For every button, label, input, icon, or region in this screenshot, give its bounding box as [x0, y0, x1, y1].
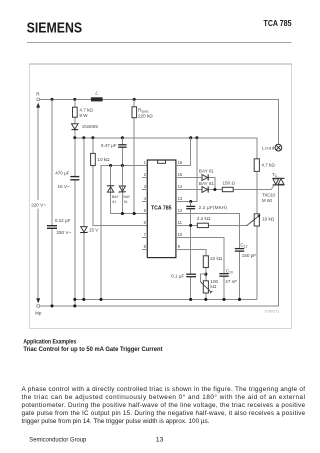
- header rule: [27, 42, 292, 44]
- svg-text:gate pulse from the IC output: gate pulse from the IC output pin 15. Du…: [22, 410, 306, 417]
- wire Rsync column: [133, 99, 135, 213]
- junction dot pin14/pin15 outputs: [213, 188, 216, 191]
- junction dot Vs rail / zener column: [82, 136, 85, 139]
- junction dot gnd/zener: [82, 298, 85, 301]
- wire pin11 control line: [176, 224, 247, 226]
- wire pin1 ground line: [101, 166, 147, 300]
- svg-text:BAY: BAY: [123, 195, 130, 199]
- wire pin14 output: [176, 189, 271, 191]
- svg-text:150 Ω: 150 Ω: [223, 180, 236, 185]
- svg-text:250 V~: 250 V~: [56, 230, 71, 235]
- svg-text:10: 10: [178, 232, 183, 237]
- pin 7 number and stub: [142, 232, 148, 238]
- junction dot pin1 line / 0.47uF column: [121, 164, 124, 167]
- svg-text:Application Examples: Application Examples: [23, 338, 76, 345]
- wire pin10 to C10: [176, 238, 224, 300]
- svg-text:0.1 µF: 0.1 µF: [171, 273, 184, 278]
- junction dot top rail / 0.22uF column: [50, 98, 53, 101]
- svg-text:150 pF: 150 pF: [242, 253, 256, 258]
- junction dot pin13 stub / 2.2uF: [189, 200, 192, 203]
- pin 2 number and stub: [142, 172, 148, 178]
- lamp Load: [262, 144, 282, 151]
- svg-text:22 kΩ: 22 kΩ: [210, 256, 223, 261]
- wire 15V zener column: [83, 138, 85, 300]
- svg-text:C12: C12: [240, 242, 247, 248]
- svg-text:12: 12: [178, 208, 183, 213]
- wire 0.22uF column: [51, 99, 53, 306]
- svg-text:11: 11: [178, 220, 183, 225]
- wire pin13 to Vs rail: [176, 138, 197, 202]
- junction dot pin11 / 2.2uF column: [189, 224, 192, 227]
- svg-text:trigger pulse from pin 14. The: trigger pulse from pin 14. The trigger p…: [22, 418, 210, 425]
- svg-text:SIEMENS: SIEMENS: [27, 20, 83, 36]
- junction dot Mp/0.22uF: [50, 304, 53, 307]
- junction dot gnd/C10: [222, 298, 225, 301]
- svg-text:2: 2: [144, 172, 147, 177]
- svg-text:Semiconductor Group: Semiconductor Group: [29, 436, 87, 443]
- svg-text:BAY 61: BAY 61: [199, 181, 214, 186]
- svg-text:TC: TC: [272, 172, 278, 178]
- wire pin9 ramp resistor column: [176, 249, 206, 299]
- svg-text:220 V~: 220 V~: [31, 202, 46, 207]
- junction dot gnd/100k: [204, 298, 207, 301]
- wire trimmer wiper jog: [200, 274, 205, 282]
- potentiometer 10 kOhm: [246, 214, 274, 226]
- svg-text:13: 13: [156, 436, 164, 443]
- svg-text:9: 9: [178, 244, 181, 249]
- node Mp terminal: [35, 305, 42, 316]
- svg-text:13: 13: [178, 196, 183, 201]
- svg-text:kΩ: kΩ: [210, 284, 216, 289]
- svg-text:15: 15: [178, 172, 183, 177]
- svg-text:the triac can be adjusted cont: the triac can be adjusted continuously b…: [22, 393, 305, 401]
- svg-text:0.47 µF: 0.47 µF: [101, 143, 117, 148]
- wire pin12 to C12: [176, 214, 240, 300]
- wire 2.2uF column down to 0.1uF and ground rail: [190, 202, 192, 300]
- svg-text:1N4005: 1N4005: [82, 124, 99, 129]
- svg-text:9 W: 9 W: [79, 113, 88, 118]
- junction dot Vs rail / 10k column: [91, 136, 94, 139]
- capacitor C10 47 nF: [219, 269, 237, 284]
- wire 4.7k 9W column: [74, 99, 76, 137]
- svg-text:470 µF: 470 µF: [55, 171, 70, 176]
- resistor 4.7 kOhm (gate supply): [254, 159, 275, 172]
- svg-text:Mp: Mp: [35, 310, 42, 315]
- svg-text:5: 5: [144, 208, 147, 213]
- svg-text:4.7 kΩ: 4.7 kΩ: [79, 108, 93, 113]
- resistor Rsync 220 kOhm: [132, 107, 153, 119]
- svg-text:3: 3: [144, 184, 147, 189]
- svg-text:BAY 61: BAY 61: [199, 169, 214, 174]
- diode BAY 61 (pin 15): [199, 169, 214, 181]
- diode BAY 61 (sync clamp left, cathode up): [107, 185, 119, 204]
- svg-text:2.2 µF(MKH): 2.2 µF(MKH): [199, 205, 228, 210]
- capacitor 0.1 uF: [171, 273, 196, 278]
- wire right BAY61 column: [121, 166, 123, 214]
- svg-text:BAY: BAY: [112, 195, 119, 199]
- pin 4 number and stub: [142, 196, 148, 202]
- svg-text:8: 8: [144, 244, 147, 249]
- junction dot Vs rail / 470uF column: [73, 136, 76, 139]
- svg-text:EIS0171: EIS0171: [265, 310, 279, 314]
- svg-text:R: R: [36, 91, 40, 96]
- resistor 2.2 kOhm: [197, 216, 211, 227]
- figure frame (decorative): [29, 64, 291, 328]
- capacitor 2.2 uF (MKH): [186, 205, 227, 210]
- junction dot Vs rail / pin13 column: [195, 136, 198, 139]
- svg-text:2.2 kΩ: 2.2 kΩ: [197, 216, 211, 221]
- capacitor 0.47uF: [101, 143, 127, 148]
- wire Vs rail to 4.7k gate resistor corner: [75, 138, 257, 159]
- junction dot gnd/0.1uF: [189, 298, 192, 301]
- svg-text:4.7 kΩ: 4.7 kΩ: [261, 162, 275, 167]
- svg-text:61: 61: [112, 200, 116, 204]
- resistor 150 Ohm: [222, 180, 235, 191]
- wire 470uF column: [74, 138, 76, 306]
- diode BAY 61 (pin 14): [199, 181, 214, 193]
- svg-text:220 kΩ: 220 kΩ: [138, 114, 153, 119]
- junction dot gnd/C12: [238, 298, 241, 301]
- wire 10k pin6 pull-up column: [93, 138, 147, 226]
- svg-text:61: 61: [124, 200, 128, 204]
- capacitor 0.22uF 250V~: [47, 218, 71, 235]
- svg-text:L: L: [95, 91, 98, 96]
- pin 8 number and stub: [142, 244, 148, 250]
- svg-text:4: 4: [144, 196, 147, 201]
- capacitor C12 150 pF: [235, 242, 256, 258]
- svg-text:15 V: 15 V: [89, 227, 99, 232]
- junction dot Vs rail / 0.47uF column: [121, 136, 124, 139]
- junction dot gnd/470uF: [73, 298, 76, 301]
- wire 0.47uF column: [121, 138, 123, 166]
- voltage arrow 220 V~: [31, 103, 49, 304]
- svg-text:TCA 785: TCA 785: [151, 206, 172, 212]
- node R terminal: [36, 91, 40, 100]
- wire Mp rail: [40, 185, 279, 306]
- junction dot top rail / Rsync column: [133, 98, 136, 101]
- resistor 100 kOhm trimmer: [200, 279, 218, 293]
- svg-text:Rsync: Rsync: [138, 107, 149, 113]
- wire pin15 output: [176, 178, 215, 190]
- zener diode 15 V: [80, 227, 99, 234]
- svg-text:Load: Load: [262, 145, 275, 150]
- wire left BAY61 column: [110, 166, 112, 214]
- wire mains R rail (top): [40, 99, 279, 144]
- junction dot Mp/470uF column: [73, 304, 76, 307]
- capacitor 470uF 16V: [55, 171, 79, 189]
- resistor 22 kOhm: [203, 256, 222, 268]
- junction dot 22k/100k node: [204, 273, 207, 276]
- resistor 4.7 kOhm 9 W: [73, 107, 94, 118]
- diode BAY 61 (sync clamp right, cathode down): [119, 186, 131, 204]
- svg-text:47 nF: 47 nF: [225, 279, 237, 284]
- svg-text:TCA 785: TCA 785: [264, 18, 292, 28]
- op-amp U1 TCA 785 IC body: [147, 160, 176, 258]
- svg-text:Triac Control for up to 50 mA: Triac Control for up to 50 mA Gate Trigg…: [23, 346, 163, 353]
- svg-text:16: 16: [178, 160, 183, 165]
- svg-text:14: 14: [178, 184, 183, 189]
- junction dot gnd/pin1 column: [99, 298, 102, 301]
- wire pin5 sync line: [111, 213, 148, 215]
- svg-text:1: 1: [144, 160, 147, 165]
- ground rail: [75, 298, 257, 300]
- diode 1N4005: [72, 124, 99, 130]
- junction dot pin5 line / right BAY61: [121, 212, 124, 215]
- svg-text:7: 7: [144, 232, 147, 237]
- svg-text:0.22 µF: 0.22 µF: [55, 218, 71, 223]
- wire 4.7k down to potentiometer: [256, 171, 258, 299]
- svg-text:A phase control with a directl: A phase control with a directly controll…: [22, 386, 306, 393]
- svg-text:16 V~: 16 V~: [57, 184, 69, 189]
- junction dot Vs rail / pin16 column: [189, 136, 192, 139]
- junction dot top rail / 4.7k column: [73, 98, 76, 101]
- svg-text:6: 6: [144, 220, 147, 225]
- svg-text:potentiometer. During the posi: potentiometer. During the positive half-…: [22, 402, 306, 409]
- inductor L: [91, 91, 103, 102]
- pin 3 number and stub: [142, 184, 148, 190]
- junction dot pin5 line / Rsync column: [133, 212, 136, 215]
- resistor 10 kOhm (pin 6): [91, 153, 110, 165]
- triac TXC10 M60: [262, 172, 285, 203]
- body paragraph: [22, 386, 306, 425]
- wire pin16 to Vs rail: [176, 138, 191, 166]
- svg-text:10 kΩ: 10 kΩ: [262, 216, 275, 221]
- svg-text:10 kΩ: 10 kΩ: [97, 157, 110, 162]
- junction dot pin1 line / left BAY61: [109, 164, 112, 167]
- svg-text:M 60: M 60: [262, 198, 273, 203]
